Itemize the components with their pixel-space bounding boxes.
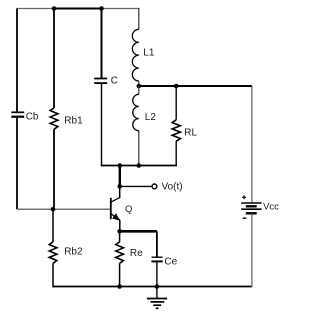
wire Vo tap bbox=[120, 185, 152, 187]
wire Vcc upper rail bbox=[251, 86, 253, 202]
wire Re upper stub bbox=[119, 231, 121, 242]
svg-text:Re: Re bbox=[130, 248, 143, 259]
wire tank bottom horizontal bbox=[101, 165, 177, 167]
svg-text:Rb1: Rb1 bbox=[64, 115, 83, 126]
node base divider junction bbox=[51, 207, 56, 212]
ground bbox=[147, 287, 167, 309]
label Vo(t) bbox=[162, 182, 183, 193]
wire L1 bottom stub bbox=[138, 81, 140, 86]
wire Ce lower stub bbox=[156, 262, 158, 287]
wire Rb1 branch upper bbox=[53, 9, 55, 108]
node RL top junction bbox=[174, 84, 179, 89]
resistor Re bbox=[116, 242, 124, 263]
wire bottom rail bbox=[53, 286, 252, 288]
wire Re lower stub bbox=[119, 263, 121, 286]
wire C branch lower bbox=[101, 84, 103, 166]
resistor Rb1 bbox=[50, 108, 58, 129]
resistor RL bbox=[172, 120, 180, 141]
label Rb2 bbox=[64, 247, 83, 258]
wire base bbox=[17, 208, 111, 210]
label Re bbox=[130, 248, 143, 259]
wire L1 top stub bbox=[138, 8, 140, 30]
svg-text:Vcc: Vcc bbox=[263, 201, 279, 212]
label L1 bbox=[143, 48, 155, 59]
transistor Q1 bbox=[111, 186, 120, 231]
wire left rail bbox=[16, 9, 18, 210]
label Cb bbox=[26, 111, 39, 122]
wire RL bottom stub bbox=[175, 141, 177, 166]
wire collector rail horizontal bbox=[139, 85, 252, 87]
wire C branch upper bbox=[101, 9, 103, 78]
node ground junction bbox=[155, 284, 160, 289]
svg-text:Q: Q bbox=[125, 204, 132, 215]
svg-text:Rb2: Rb2 bbox=[64, 247, 83, 258]
node Rb1 top junction bbox=[52, 6, 57, 11]
svg-text:Vo(t): Vo(t) bbox=[162, 182, 183, 193]
node Vo terminal bbox=[152, 184, 157, 189]
label Vcc bbox=[263, 201, 279, 212]
capacitor C bbox=[94, 79, 107, 84]
node collector tap bbox=[118, 163, 123, 168]
label Ce bbox=[164, 256, 177, 267]
capacitor Ce bbox=[151, 257, 162, 261]
label L2 bbox=[145, 112, 157, 123]
wire Rb2 upper stub bbox=[52, 209, 54, 242]
svg-text:C: C bbox=[111, 75, 118, 86]
wire collector vertical bbox=[119, 166, 121, 187]
wire Rb1 branch lower bbox=[53, 129, 55, 209]
wire L2 bottom stub bbox=[138, 131, 140, 166]
svg-text:L2: L2 bbox=[145, 112, 157, 123]
node L2 bottom junction bbox=[137, 163, 142, 168]
node emitter junction bbox=[117, 229, 122, 234]
wire L2 top stub bbox=[138, 86, 140, 94]
wire top rail right segment bbox=[102, 8, 140, 10]
node Vo tap junction bbox=[117, 184, 122, 189]
inductor L2 bbox=[133, 94, 139, 130]
wire Rb2 lower stub bbox=[52, 263, 54, 287]
wire emitter node horizontal bbox=[120, 230, 157, 233]
svg-text:Cb: Cb bbox=[26, 111, 39, 122]
inductor L1 bbox=[132, 29, 138, 81]
node C top junction bbox=[99, 6, 104, 11]
svg-text:L1: L1 bbox=[143, 48, 155, 59]
label Q bbox=[125, 204, 132, 215]
label RL bbox=[184, 128, 197, 139]
capacitor Cb bbox=[11, 112, 24, 116]
resistor Rb2 bbox=[49, 242, 57, 263]
wire top rail left segment bbox=[17, 8, 55, 10]
label Rb1 bbox=[64, 115, 83, 126]
svg-text:RL: RL bbox=[184, 128, 197, 139]
node Re bottom junction bbox=[117, 284, 122, 289]
wire Ce upper stub bbox=[156, 231, 158, 256]
node L1-L2 junction bbox=[137, 84, 142, 89]
wire top rail middle segment bbox=[54, 8, 102, 10]
wire RL top stub bbox=[175, 86, 177, 120]
svg-text:Ce: Ce bbox=[164, 256, 177, 267]
wire Vcc lower rail bbox=[251, 214, 253, 288]
label C bbox=[111, 75, 118, 86]
battery Vcc bbox=[241, 195, 261, 218]
